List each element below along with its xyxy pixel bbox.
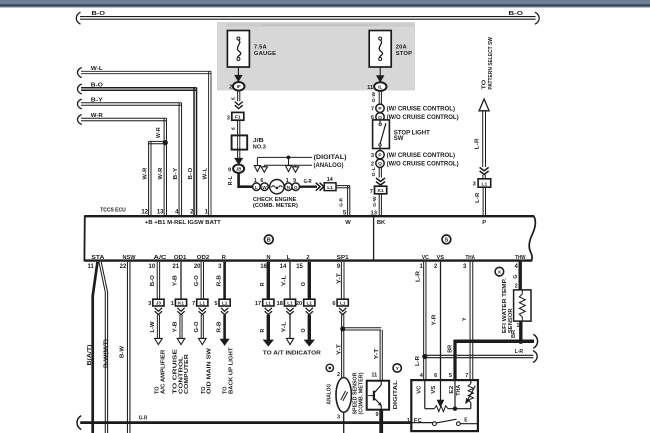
- svg-text:R: R: [260, 329, 266, 333]
- svg-text:W-R: W-R: [158, 167, 164, 179]
- svg-text:W-L: W-L: [202, 167, 208, 180]
- svg-text:7: 7: [370, 189, 373, 195]
- svg-text:W: W: [345, 220, 351, 226]
- svg-text:9: 9: [376, 412, 379, 418]
- svg-text:OD1: OD1: [174, 255, 187, 261]
- svg-text:G-R: G-R: [139, 416, 148, 422]
- svg-text:L-R: L-R: [475, 192, 481, 203]
- svg-text:BR: BR: [447, 344, 453, 352]
- svg-text:L1: L1: [340, 301, 346, 306]
- svg-text:W-R: W-R: [91, 113, 103, 119]
- svg-text:DIGITAL: DIGITAL: [393, 380, 399, 410]
- svg-text:TO A/T INDICATOR: TO A/T INDICATOR: [263, 350, 322, 356]
- svg-text:7: 7: [465, 373, 468, 379]
- svg-text:IL: IL: [378, 85, 382, 90]
- svg-text:+B +B1 M-REL IGSW BATT: +B +B1 M-REL IGSW BATT: [145, 220, 221, 226]
- svg-text:3: 3: [337, 414, 340, 420]
- svg-text:22: 22: [120, 264, 127, 270]
- svg-text:SENSOR: SENSOR: [508, 308, 514, 333]
- svg-text:W: W: [231, 127, 235, 131]
- svg-text:J3: J3: [156, 301, 162, 306]
- svg-text:O: O: [301, 328, 307, 332]
- svg-text:(COMB. METER): (COMB. METER): [253, 203, 298, 209]
- svg-text:B-Y: B-Y: [173, 167, 179, 179]
- svg-text:L: L: [255, 185, 258, 190]
- svg-text:16: 16: [260, 264, 267, 270]
- svg-text:9: 9: [293, 178, 296, 184]
- svg-text:Y-L: Y-L: [282, 274, 288, 286]
- svg-text:L1: L1: [287, 301, 293, 306]
- svg-text:5: 5: [449, 373, 452, 379]
- svg-text:7: 7: [192, 301, 195, 307]
- svg-text:SW: SW: [394, 136, 404, 142]
- svg-text:11: 11: [367, 85, 373, 91]
- svg-text:VS: VS: [437, 255, 445, 261]
- svg-text:W: W: [231, 97, 235, 101]
- svg-text:1: 1: [286, 178, 289, 184]
- svg-text:L-W: L-W: [150, 321, 156, 332]
- svg-text:B-W(M/T): B-W(M/T): [104, 339, 110, 368]
- svg-text:2: 2: [515, 284, 518, 290]
- svg-text:K1: K1: [178, 301, 184, 306]
- svg-text:2: 2: [229, 85, 232, 91]
- svg-text:R-B: R-B: [216, 321, 222, 332]
- svg-text:20: 20: [296, 301, 302, 307]
- svg-text:L-R: L-R: [475, 138, 481, 149]
- svg-text:O: O: [301, 282, 307, 286]
- svg-text:Y-B: Y-B: [173, 275, 179, 286]
- svg-text:Q: Q: [378, 161, 382, 167]
- svg-text:GAUGE: GAUGE: [254, 51, 276, 57]
- svg-text:VC: VC: [417, 385, 423, 393]
- svg-text:9: 9: [228, 167, 231, 173]
- svg-text:L-R: L-R: [415, 356, 421, 366]
- svg-text:1: 1: [254, 178, 257, 184]
- svg-text:JB: JB: [236, 167, 242, 172]
- svg-text:O: O: [294, 185, 298, 190]
- svg-text:G-R: G-R: [304, 179, 312, 185]
- svg-text:Y-R: Y-R: [432, 314, 438, 325]
- svg-text:3: 3: [473, 182, 476, 188]
- svg-text:W-L: W-L: [91, 66, 104, 72]
- svg-text:G-R: G-R: [339, 197, 345, 206]
- svg-text:IF: IF: [237, 84, 241, 89]
- svg-text:A/C: A/C: [154, 255, 168, 261]
- svg-text:(ANALOG): (ANALOG): [314, 162, 344, 169]
- svg-text:J/B: J/B: [253, 138, 264, 144]
- svg-text:W-R: W-R: [156, 127, 162, 138]
- svg-text:21: 21: [172, 264, 179, 270]
- svg-text:B: B: [267, 237, 271, 243]
- svg-text:Y-B: Y-B: [173, 321, 179, 332]
- svg-text:THA: THA: [465, 255, 475, 261]
- svg-text:G-W: G-W: [372, 196, 378, 207]
- svg-text:TO: TO: [154, 386, 160, 394]
- svg-text:7.5A: 7.5A: [254, 44, 268, 50]
- svg-text:P: P: [482, 220, 486, 226]
- svg-text:E2: E2: [449, 385, 455, 393]
- svg-text:A/C AMPLIFIER: A/C AMPLIFIER: [161, 349, 167, 394]
- svg-text:Y-L: Y-L: [282, 320, 288, 332]
- svg-text:1: 1: [171, 301, 174, 307]
- svg-text:(W/O CRUISE CONTROL): (W/O CRUISE CONTROL): [387, 162, 459, 168]
- svg-text:L-R: L-R: [515, 349, 524, 355]
- svg-text:B-W: B-W: [120, 345, 126, 358]
- svg-text:10: 10: [149, 264, 156, 270]
- svg-text:BK: BK: [377, 220, 386, 226]
- svg-text:TO: TO: [482, 79, 488, 89]
- svg-text:(W/ CRUISE CONTROL): (W/ CRUISE CONTROL): [387, 107, 456, 113]
- svg-text:3: 3: [148, 301, 151, 307]
- svg-text:G: G: [513, 275, 519, 279]
- svg-text:L: L: [287, 255, 291, 261]
- svg-text:2: 2: [337, 372, 340, 378]
- svg-text:17: 17: [255, 301, 261, 307]
- svg-text:F1: F1: [235, 114, 241, 120]
- svg-text:G-W: G-W: [371, 92, 377, 103]
- svg-text:R-B: R-B: [216, 275, 222, 286]
- svg-text:Y-T: Y-T: [374, 347, 380, 359]
- svg-text:13: 13: [157, 209, 164, 215]
- svg-text:L1: L1: [200, 301, 206, 306]
- svg-text:VS: VS: [431, 385, 437, 394]
- svg-text:11: 11: [371, 372, 377, 378]
- svg-text:Y: Y: [462, 317, 468, 321]
- svg-text:B-Y: B-Y: [91, 98, 104, 104]
- svg-text:(W/ CRUISE CONTROL): (W/ CRUISE CONTROL): [387, 153, 456, 159]
- svg-text:NO.3: NO.3: [253, 145, 266, 151]
- svg-text:6: 6: [434, 373, 437, 379]
- svg-text:(COMB. METER): (COMB. METER): [359, 372, 365, 414]
- svg-text:L1: L1: [482, 181, 488, 187]
- svg-text:(DIGITAL): (DIGITAL): [314, 154, 347, 161]
- svg-text:COMPUTER: COMPUTER: [184, 353, 190, 394]
- svg-text:W: W: [262, 185, 267, 190]
- svg-text:SP1: SP1: [337, 255, 350, 261]
- svg-text:S: S: [445, 237, 449, 243]
- svg-text:N: N: [266, 255, 270, 261]
- svg-text:7: 7: [371, 106, 374, 112]
- svg-text:B-O: B-O: [150, 275, 156, 286]
- svg-text:B-O: B-O: [92, 11, 106, 17]
- svg-text:W-R: W-R: [142, 167, 148, 179]
- svg-text:B(A/T): B(A/T): [87, 344, 93, 365]
- svg-text:PATTERN SELECT SW: PATTERN SELECT SW: [488, 36, 494, 89]
- svg-text:VC: VC: [422, 255, 430, 261]
- svg-text:Y-T: Y-T: [337, 272, 343, 284]
- svg-text:15: 15: [296, 264, 303, 270]
- svg-text:L1: L1: [307, 301, 313, 306]
- svg-text:L1: L1: [266, 301, 272, 306]
- svg-text:5: 5: [214, 301, 217, 307]
- svg-text:6: 6: [332, 301, 335, 307]
- svg-text:K1: K1: [377, 188, 384, 194]
- svg-text:3: 3: [227, 115, 230, 121]
- svg-text:2: 2: [371, 161, 374, 167]
- svg-text:R-L: R-L: [228, 176, 234, 186]
- svg-text:L-R: L-R: [416, 271, 422, 282]
- svg-text:20: 20: [194, 264, 201, 270]
- svg-text:O/D MAIN SW: O/D MAIN SW: [207, 347, 213, 394]
- svg-text:G-O: G-O: [194, 275, 200, 286]
- svg-text:THW: THW: [515, 255, 526, 261]
- svg-text:THA: THA: [456, 384, 462, 395]
- svg-text:Y-T: Y-T: [336, 343, 342, 355]
- svg-text:2: 2: [306, 255, 309, 261]
- svg-text:1: 1: [517, 323, 520, 329]
- svg-text:(W/O CRUISE CONTROL): (W/O CRUISE CONTROL): [387, 115, 459, 121]
- svg-text:BACK UP LIGHT: BACK UP LIGHT: [228, 347, 234, 394]
- svg-text:OD2: OD2: [197, 255, 210, 261]
- svg-text:20A: 20A: [396, 44, 408, 50]
- svg-text:11: 11: [87, 264, 94, 270]
- svg-text:B-O: B-O: [508, 11, 523, 17]
- svg-text:TCCS ECU: TCCS ECU: [100, 207, 126, 213]
- svg-text:STA: STA: [91, 255, 105, 261]
- svg-text:14: 14: [280, 264, 287, 270]
- svg-text:B-O: B-O: [91, 83, 103, 89]
- svg-text:ANALOG: ANALOG: [326, 383, 332, 404]
- svg-text:R: R: [260, 282, 266, 286]
- svg-text:L1: L1: [222, 301, 228, 306]
- svg-text:18: 18: [277, 301, 283, 307]
- svg-text:G-L: G-L: [371, 167, 377, 177]
- svg-text:L1: L1: [327, 185, 333, 191]
- svg-text:12: 12: [141, 209, 148, 215]
- svg-text:B-O: B-O: [188, 168, 194, 180]
- svg-text:STOP: STOP: [396, 51, 412, 57]
- svg-text:6: 6: [260, 178, 263, 184]
- svg-text:NSW: NSW: [123, 255, 137, 261]
- svg-text:G-O: G-O: [194, 322, 200, 333]
- svg-text:3: 3: [371, 153, 374, 159]
